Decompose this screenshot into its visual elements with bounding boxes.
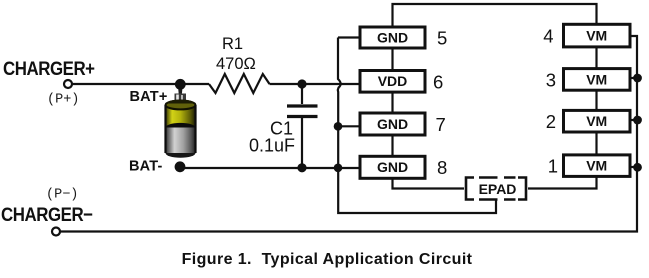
pin 4 VM bbox=[543, 24, 630, 47]
node VM1 junction dot bbox=[633, 163, 642, 172]
wire CHARGER+ to BAT+ node bbox=[72, 83, 209, 85]
pin GND 7 bbox=[360, 113, 446, 135]
svg-text:VM: VM bbox=[586, 113, 607, 129]
svg-text:6: 6 bbox=[433, 71, 443, 92]
svg-text:GND: GND bbox=[377, 159, 408, 175]
node VM3 junction dot bbox=[633, 74, 642, 83]
svg-text:7: 7 bbox=[436, 114, 446, 135]
wire GND bus left vertical with hop over VDD wire bbox=[338, 38, 496, 214]
node C1 bottom junction dot bbox=[297, 163, 306, 172]
pin 2 VM bbox=[546, 110, 630, 132]
wire BAT- row bbox=[180, 167, 360, 169]
node GND7 junction dot bbox=[334, 122, 343, 131]
pin VDD 6 bbox=[360, 71, 443, 93]
pin 1 VM bbox=[548, 155, 630, 177]
svg-text:0.1uF: 0.1uF bbox=[249, 136, 295, 156]
svg-text:VDD: VDD bbox=[378, 73, 408, 89]
node VM2 junction dot bbox=[633, 116, 642, 125]
svg-text:GND: GND bbox=[377, 116, 408, 132]
svg-text:Figure 1. Typical Application: Figure 1. Typical Application Circuit bbox=[182, 251, 473, 268]
node BAT- junction dot bbox=[175, 161, 186, 172]
resistor R1 bbox=[209, 74, 270, 93]
svg-text:4: 4 bbox=[543, 26, 553, 47]
wire left pin bus segments bbox=[393, 48, 465, 189]
pin GND 8 bbox=[360, 156, 447, 178]
svg-text:CHARGER−: CHARGER− bbox=[1, 203, 93, 225]
terminal CHARGER+ bbox=[64, 80, 72, 88]
svg-text:3: 3 bbox=[546, 69, 556, 90]
wire stub GND5 bbox=[338, 36, 360, 38]
pin GND 5 bbox=[360, 27, 447, 48]
svg-text:1: 1 bbox=[548, 156, 558, 177]
wire stub VM3 bbox=[630, 77, 637, 79]
node BAT+ junction dot bbox=[175, 79, 186, 90]
svg-text:BAT+: BAT+ bbox=[130, 89, 168, 105]
wire stub GND7 bbox=[338, 125, 360, 127]
svg-text:470Ω: 470Ω bbox=[216, 55, 256, 73]
wire right pin bus segments bbox=[528, 47, 597, 189]
pin 3 VM bbox=[546, 69, 630, 91]
svg-text:VM: VM bbox=[586, 158, 607, 174]
wire VM4 stub and right vertical to CHARGER- bbox=[60, 36, 637, 232]
node GND8/BAT- junction dot bbox=[334, 164, 343, 173]
pad EPAD bbox=[466, 178, 526, 200]
svg-text:VM: VM bbox=[586, 28, 607, 44]
svg-text:(P−): (P−) bbox=[46, 187, 78, 202]
wire top loop GND5 to VM4 bbox=[393, 4, 597, 27]
svg-text:EPAD: EPAD bbox=[479, 181, 517, 197]
svg-text:VM: VM bbox=[586, 71, 607, 87]
node C1 top junction dot bbox=[297, 79, 306, 88]
svg-text:(P+): (P+) bbox=[47, 92, 79, 107]
wire resistor right to VDD bbox=[270, 83, 361, 85]
svg-text:8: 8 bbox=[437, 157, 447, 178]
wire stub VM2 bbox=[630, 119, 637, 121]
svg-text:R1: R1 bbox=[222, 35, 243, 53]
svg-text:5: 5 bbox=[437, 27, 447, 48]
wire stub VM1 bbox=[630, 166, 637, 168]
svg-text:GND: GND bbox=[377, 29, 408, 45]
svg-text:BAT-: BAT- bbox=[129, 159, 163, 175]
terminal CHARGER- bbox=[52, 228, 60, 236]
capacitor C1 bbox=[287, 84, 318, 168]
battery B1 bbox=[166, 84, 196, 158]
svg-text:CHARGER+: CHARGER+ bbox=[3, 57, 95, 79]
svg-text:2: 2 bbox=[546, 111, 556, 132]
